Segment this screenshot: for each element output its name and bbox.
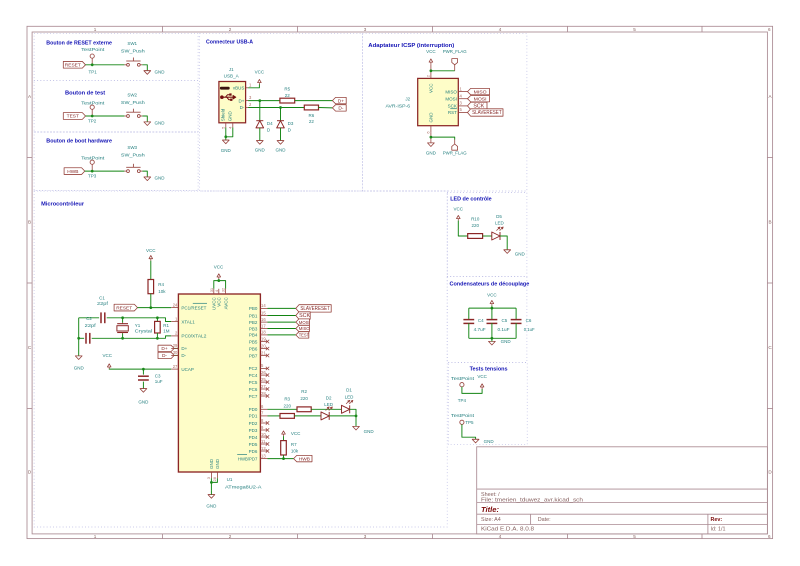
svg-text:D-: D- bbox=[240, 105, 245, 110]
svg-text:Shield: Shield bbox=[221, 108, 226, 121]
svg-text:11: 11 bbox=[261, 439, 266, 444]
wire bbox=[142, 116, 147, 122]
svg-text:220: 220 bbox=[300, 396, 308, 401]
wire bbox=[150, 294, 152, 308]
wire bbox=[483, 235, 492, 237]
test point TP4 bbox=[451, 376, 475, 403]
svg-text:VCC: VCC bbox=[214, 265, 224, 270]
power VCC bbox=[426, 49, 436, 64]
ground bbox=[144, 69, 165, 74]
wire bbox=[311, 408, 341, 410]
svg-text:10k: 10k bbox=[291, 448, 299, 453]
svg-text:29: 29 bbox=[173, 343, 178, 348]
svg-text:1: 1 bbox=[94, 27, 97, 32]
svg-text:VCC: VCC bbox=[217, 296, 222, 306]
svg-text:Tests tensions: Tests tensions bbox=[470, 367, 508, 373]
wire bbox=[515, 323, 517, 338]
svg-text:15: 15 bbox=[261, 310, 266, 315]
svg-text:PC7: PC7 bbox=[249, 394, 258, 399]
svg-text:TP3: TP3 bbox=[88, 173, 97, 178]
svg-text:GND: GND bbox=[364, 429, 375, 434]
svg-text:GND: GND bbox=[429, 112, 434, 123]
svg-text:Size: A4: Size: A4 bbox=[481, 517, 501, 523]
svg-text:D3: D3 bbox=[288, 121, 294, 126]
svg-text:RESET: RESET bbox=[65, 63, 81, 69]
svg-text:PB1: PB1 bbox=[249, 313, 258, 318]
svg-text:17: 17 bbox=[261, 323, 266, 328]
wire bbox=[468, 323, 470, 338]
wire bbox=[283, 436, 285, 441]
global label SCK bbox=[468, 102, 488, 109]
resistor R6 bbox=[304, 105, 318, 124]
svg-text:0.1uF: 0.1uF bbox=[498, 327, 510, 332]
global label MOSI bbox=[468, 96, 490, 102]
wire bbox=[86, 64, 125, 66]
global label D- bbox=[158, 352, 174, 359]
svg-text:Bouton de test: Bouton de test bbox=[65, 91, 105, 97]
svg-text:GND: GND bbox=[155, 121, 166, 126]
global label SCK bbox=[296, 312, 311, 319]
junction bbox=[156, 316, 159, 319]
svg-text:VCC: VCC bbox=[255, 70, 265, 75]
svg-text:TEST: TEST bbox=[67, 114, 79, 120]
wire bbox=[268, 307, 296, 309]
junction bbox=[430, 136, 433, 139]
svg-text:KiCad E.D.A. 8.0.8: KiCad E.D.A. 8.0.8 bbox=[481, 526, 534, 532]
svg-text:D2: D2 bbox=[326, 395, 332, 400]
resistor R4 bbox=[148, 280, 166, 294]
svg-text:PD0: PD0 bbox=[249, 407, 258, 412]
test point TP2 bbox=[81, 101, 105, 124]
svg-text:HWB: HWB bbox=[67, 169, 78, 175]
svg-text:21: 21 bbox=[261, 350, 266, 355]
power flag PWR_FLAG bbox=[443, 140, 467, 156]
svg-text:LED: LED bbox=[324, 402, 334, 407]
ground bbox=[504, 250, 526, 256]
wire bbox=[462, 387, 482, 394]
wire bbox=[268, 334, 296, 336]
svg-text:VCC: VCC bbox=[102, 353, 112, 358]
svg-text:1uF: 1uF bbox=[155, 379, 163, 384]
wire bbox=[280, 128, 282, 141]
svg-text:B: B bbox=[768, 220, 771, 225]
wire bbox=[79, 317, 99, 319]
svg-text:GND: GND bbox=[209, 458, 214, 469]
ground bbox=[255, 141, 266, 153]
svg-text:Title:: Title: bbox=[481, 505, 499, 514]
svg-text:D+: D+ bbox=[338, 98, 344, 104]
svg-text:TestPoint: TestPoint bbox=[81, 101, 105, 106]
global label HWB bbox=[64, 168, 85, 175]
wire bbox=[210, 478, 212, 490]
svg-text:Connecteur USB-A: Connecteur USB-A bbox=[206, 40, 253, 46]
svg-text:Microcontrôleur: Microcontrôleur bbox=[41, 202, 85, 208]
svg-text:MOSI: MOSI bbox=[299, 320, 310, 325]
svg-text:R6: R6 bbox=[309, 113, 315, 118]
switch SW2 bbox=[121, 92, 145, 117]
svg-text:GND: GND bbox=[255, 148, 266, 153]
svg-text:PB4: PB4 bbox=[249, 333, 258, 338]
capacitor C6 bbox=[511, 318, 535, 332]
power VCC bbox=[477, 374, 487, 389]
svg-text:VCC: VCC bbox=[429, 83, 434, 93]
wire bbox=[469, 337, 516, 339]
svg-text:R1: R1 bbox=[163, 323, 169, 328]
no-connect flags on unused U1 pins bbox=[266, 340, 269, 453]
svg-text:2: 2 bbox=[229, 534, 232, 539]
svg-text:220: 220 bbox=[471, 223, 479, 228]
wire bbox=[469, 307, 516, 309]
svg-text:SW_Push: SW_Push bbox=[121, 152, 145, 157]
junction bbox=[91, 63, 94, 66]
wire bbox=[268, 321, 296, 323]
ground bbox=[74, 356, 85, 371]
svg-text:16: 16 bbox=[261, 317, 266, 322]
svg-text:PC0/XTAL2: PC0/XTAL2 bbox=[181, 334, 207, 339]
svg-text:PD2: PD2 bbox=[249, 421, 258, 426]
wire bbox=[174, 354, 178, 356]
svg-text:22pf: 22pf bbox=[97, 301, 109, 306]
wire bbox=[174, 347, 178, 349]
svg-text:PD5: PD5 bbox=[249, 442, 258, 447]
LED D5 bbox=[492, 214, 505, 240]
svg-text:GND: GND bbox=[426, 151, 437, 156]
LED D2 bbox=[321, 395, 334, 420]
svg-text:PWR_FLAG: PWR_FLAG bbox=[443, 151, 467, 156]
svg-text:22: 22 bbox=[309, 119, 315, 124]
global label MISO bbox=[296, 325, 310, 331]
svg-text:4: 4 bbox=[499, 534, 502, 539]
svg-text:TEST: TEST bbox=[299, 333, 310, 338]
resistor R3 bbox=[280, 396, 294, 418]
svg-text:3: 3 bbox=[364, 27, 367, 32]
svg-text:SCK: SCK bbox=[299, 313, 310, 319]
ground bbox=[138, 389, 149, 405]
switch SW3 bbox=[121, 145, 145, 173]
junction bbox=[77, 337, 80, 340]
svg-text:File: tmerien_tduwez_avr.kicad: File: tmerien_tduwez_avr.kicad_sch bbox=[481, 498, 583, 504]
wire bbox=[295, 100, 333, 102]
svg-text:VCC: VCC bbox=[146, 248, 156, 253]
svg-text:PD6: PD6 bbox=[249, 449, 258, 454]
junction bbox=[142, 368, 145, 371]
svg-text:4: 4 bbox=[499, 27, 502, 32]
svg-text:R4: R4 bbox=[158, 282, 164, 287]
svg-text:Id: 1/1: Id: 1/1 bbox=[711, 526, 726, 532]
ground bbox=[276, 141, 287, 153]
wire bbox=[92, 336, 172, 338]
svg-text:12: 12 bbox=[261, 446, 266, 451]
svg-text:GND: GND bbox=[515, 251, 526, 256]
ground bbox=[426, 143, 437, 156]
svg-text:3: 3 bbox=[364, 534, 367, 539]
svg-text:PC2: PC2 bbox=[249, 366, 258, 371]
junction bbox=[156, 337, 159, 340]
svg-text:C5: C5 bbox=[502, 318, 508, 323]
svg-text:28: 28 bbox=[212, 476, 217, 481]
svg-text:UCAP: UCAP bbox=[181, 367, 194, 372]
wire bbox=[500, 236, 507, 250]
capacitor C1 bbox=[97, 296, 109, 324]
wire bbox=[214, 281, 226, 289]
svg-text:D+: D+ bbox=[161, 346, 167, 352]
junction bbox=[121, 337, 124, 340]
power VCC bbox=[487, 292, 497, 305]
svg-text:PB2: PB2 bbox=[249, 320, 258, 325]
wire bbox=[78, 318, 80, 356]
svg-text:PD1: PD1 bbox=[249, 414, 258, 419]
junction bbox=[355, 415, 358, 418]
junction bbox=[210, 481, 213, 484]
svg-text:GND: GND bbox=[501, 339, 512, 344]
wire bbox=[107, 318, 172, 322]
wire bbox=[225, 128, 227, 141]
svg-text:PB0: PB0 bbox=[249, 306, 258, 311]
svg-text:24: 24 bbox=[173, 302, 178, 307]
svg-text:PC5: PC5 bbox=[249, 380, 258, 385]
switch SW1 bbox=[121, 41, 145, 66]
svg-text:R5: R5 bbox=[284, 87, 290, 92]
svg-text:5: 5 bbox=[633, 27, 636, 32]
wire bbox=[280, 108, 282, 121]
svg-text:R10: R10 bbox=[471, 217, 480, 222]
svg-text:27: 27 bbox=[173, 364, 178, 369]
svg-text:18: 18 bbox=[261, 330, 266, 335]
svg-text:5: 5 bbox=[633, 534, 636, 539]
power VCC bbox=[214, 265, 224, 280]
svg-text:Condensateurs de découplage: Condensateurs de découplage bbox=[450, 282, 530, 288]
svg-text:U1: U1 bbox=[227, 477, 233, 482]
svg-text:GND: GND bbox=[74, 366, 85, 371]
svg-text:SW_Push: SW_Push bbox=[121, 100, 145, 105]
svg-text:AVCC: AVCC bbox=[223, 296, 228, 309]
svg-text:ATmega8U2-A: ATmega8U2-A bbox=[225, 485, 262, 490]
svg-text:C1: C1 bbox=[99, 296, 105, 301]
svg-text:TP1: TP1 bbox=[88, 70, 97, 75]
svg-text:30: 30 bbox=[173, 350, 178, 355]
svg-text:VCC: VCC bbox=[426, 49, 436, 54]
global label MOSI bbox=[296, 319, 310, 325]
svg-text:TestPoint: TestPoint bbox=[451, 413, 475, 418]
wire bbox=[350, 409, 356, 416]
svg-text:Adaptateur ICSP (interruption): Adaptateur ICSP (interruption) bbox=[368, 43, 454, 49]
svg-text:D-: D- bbox=[338, 106, 343, 112]
svg-text:GND: GND bbox=[228, 110, 233, 121]
svg-text:MISO: MISO bbox=[299, 326, 310, 331]
svg-text:28: 28 bbox=[261, 391, 266, 396]
global label HWB bbox=[294, 455, 312, 462]
svg-text:26: 26 bbox=[261, 370, 266, 375]
power VCC bbox=[282, 431, 301, 436]
svg-text:19: 19 bbox=[261, 336, 266, 341]
svg-text:TestPoint: TestPoint bbox=[451, 376, 475, 381]
connector J2 AVR-ISP-6 bbox=[386, 72, 468, 134]
svg-text:D+: D+ bbox=[181, 346, 187, 351]
wire bbox=[294, 415, 321, 417]
wire bbox=[109, 368, 171, 370]
wire bbox=[319, 107, 333, 109]
svg-text:D-: D- bbox=[162, 353, 167, 359]
svg-text:PB5: PB5 bbox=[249, 339, 258, 344]
svg-text:13: 13 bbox=[261, 453, 266, 458]
svg-text:RESET: RESET bbox=[116, 305, 132, 311]
svg-text:TestPoint: TestPoint bbox=[81, 47, 105, 52]
svg-text:J1: J1 bbox=[229, 67, 234, 72]
ground bbox=[144, 176, 165, 181]
svg-text:Date:: Date: bbox=[538, 517, 551, 523]
svg-text:22pf: 22pf bbox=[85, 323, 97, 328]
wire bbox=[430, 64, 432, 72]
wire bbox=[268, 328, 296, 330]
wire bbox=[431, 70, 455, 72]
crystal Y1 bbox=[117, 318, 152, 339]
junction bbox=[121, 316, 124, 319]
svg-text:Y1: Y1 bbox=[135, 323, 141, 328]
wire bbox=[248, 84, 259, 87]
svg-text:Rev:: Rev: bbox=[711, 517, 723, 523]
test point TP1 bbox=[81, 47, 105, 75]
wire bbox=[259, 101, 261, 121]
capacitor C2 bbox=[85, 316, 97, 344]
power VCC bbox=[146, 248, 156, 261]
resistor R2 bbox=[297, 389, 311, 411]
wire bbox=[211, 478, 217, 482]
svg-text:vBUS: vBUS bbox=[233, 86, 245, 91]
svg-text:32: 32 bbox=[221, 287, 226, 292]
svg-text:B: B bbox=[28, 220, 31, 225]
svg-text:D4: D4 bbox=[267, 121, 273, 126]
svg-text:10k: 10k bbox=[158, 289, 166, 294]
wire bbox=[329, 415, 356, 417]
svg-text:PC1/RESET: PC1/RESET bbox=[181, 305, 206, 310]
svg-text:GND: GND bbox=[206, 504, 217, 509]
svg-text:C2: C2 bbox=[86, 316, 92, 321]
wire bbox=[268, 315, 296, 317]
svg-text:SW1: SW1 bbox=[127, 41, 137, 46]
wire bbox=[248, 100, 280, 102]
svg-text:PD4: PD4 bbox=[249, 435, 258, 440]
power flag PWR_FLAG bbox=[443, 49, 467, 71]
ground bbox=[144, 121, 165, 126]
svg-text:RST: RST bbox=[448, 110, 457, 115]
wire bbox=[462, 424, 476, 439]
svg-text:R3: R3 bbox=[284, 396, 290, 401]
diode D3 bbox=[277, 121, 294, 133]
capacitor C4 bbox=[463, 318, 485, 332]
svg-text:SW2: SW2 bbox=[127, 92, 137, 97]
svg-text:D-: D- bbox=[181, 353, 186, 358]
svg-text:R2: R2 bbox=[301, 389, 307, 394]
wire bbox=[218, 279, 220, 281]
ground bbox=[472, 439, 494, 444]
global label D- bbox=[332, 105, 346, 112]
svg-text:PB6: PB6 bbox=[249, 346, 258, 351]
junction bbox=[279, 106, 282, 109]
svg-text:VCC: VCC bbox=[291, 431, 301, 436]
global label RESET bbox=[114, 304, 137, 311]
svg-text:VCC: VCC bbox=[454, 207, 464, 212]
svg-text:USB_A: USB_A bbox=[224, 73, 239, 78]
svg-text:1: 1 bbox=[94, 534, 97, 539]
svg-text:D+: D+ bbox=[239, 98, 245, 103]
microcontroller U1 ATmega8U2-A bbox=[171, 287, 267, 490]
svg-text:R7: R7 bbox=[291, 442, 297, 447]
junction bbox=[224, 135, 227, 138]
svg-text:SW_Push: SW_Push bbox=[121, 48, 145, 53]
wire bbox=[283, 455, 285, 459]
svg-text:220: 220 bbox=[283, 403, 291, 408]
svg-text:6: 6 bbox=[768, 27, 771, 32]
wire bbox=[142, 171, 147, 177]
wire bbox=[491, 323, 493, 338]
wire bbox=[259, 128, 261, 141]
svg-text:25: 25 bbox=[261, 377, 266, 382]
svg-text:LED: LED bbox=[495, 221, 505, 226]
svg-text:MOSI: MOSI bbox=[445, 96, 457, 101]
svg-text:J2: J2 bbox=[405, 96, 410, 101]
global label D+ bbox=[332, 97, 346, 104]
resistor R5 bbox=[280, 87, 295, 103]
wire bbox=[268, 458, 294, 460]
svg-text:10: 10 bbox=[261, 432, 266, 437]
svg-text:HWB: HWB bbox=[299, 456, 310, 462]
wire bbox=[458, 221, 467, 236]
global label D+ bbox=[158, 345, 174, 352]
diode D4 bbox=[256, 121, 273, 133]
svg-text:SLAVERESET: SLAVERESET bbox=[472, 110, 502, 116]
junction bbox=[258, 99, 261, 102]
svg-text:GND: GND bbox=[155, 176, 166, 181]
junction bbox=[217, 279, 220, 282]
svg-text:PC6: PC6 bbox=[249, 387, 258, 392]
ground bbox=[221, 140, 232, 153]
global label TEST bbox=[296, 332, 310, 338]
wire bbox=[355, 416, 357, 427]
wire bbox=[86, 115, 125, 117]
global label TEST bbox=[63, 113, 85, 120]
svg-text:XTAL1: XTAL1 bbox=[181, 319, 195, 324]
wire bbox=[268, 415, 281, 417]
global label MISO bbox=[468, 88, 490, 94]
wire bbox=[491, 308, 493, 320]
svg-text:C3: C3 bbox=[155, 374, 161, 379]
svg-text:2: 2 bbox=[229, 27, 232, 32]
svg-text:SCK: SCK bbox=[448, 104, 457, 109]
svg-text:TP5: TP5 bbox=[465, 420, 474, 425]
svg-text:MOSI: MOSI bbox=[474, 96, 487, 101]
svg-text:TP2: TP2 bbox=[88, 118, 97, 123]
power VCC bbox=[102, 353, 112, 369]
svg-text:AVR-ISP-6: AVR-ISP-6 bbox=[386, 104, 411, 109]
svg-text:GND: GND bbox=[276, 148, 287, 153]
svg-text:LED de contrôle: LED de contrôle bbox=[450, 196, 492, 202]
svg-text:22: 22 bbox=[285, 93, 291, 98]
svg-text:LED: LED bbox=[345, 394, 355, 399]
capacitor C5 bbox=[487, 318, 510, 332]
svg-text:PB7: PB7 bbox=[249, 353, 258, 358]
svg-text:GND: GND bbox=[221, 148, 232, 153]
global label SLAVERESET bbox=[296, 305, 331, 312]
capacitor C3 bbox=[138, 369, 163, 389]
resistor R7 bbox=[281, 441, 299, 455]
svg-text:GND: GND bbox=[138, 400, 149, 405]
wire bbox=[85, 170, 125, 172]
wire bbox=[226, 128, 233, 137]
wire bbox=[430, 132, 432, 143]
wire bbox=[268, 408, 298, 410]
svg-text:GND: GND bbox=[155, 69, 166, 74]
wire bbox=[491, 306, 493, 309]
